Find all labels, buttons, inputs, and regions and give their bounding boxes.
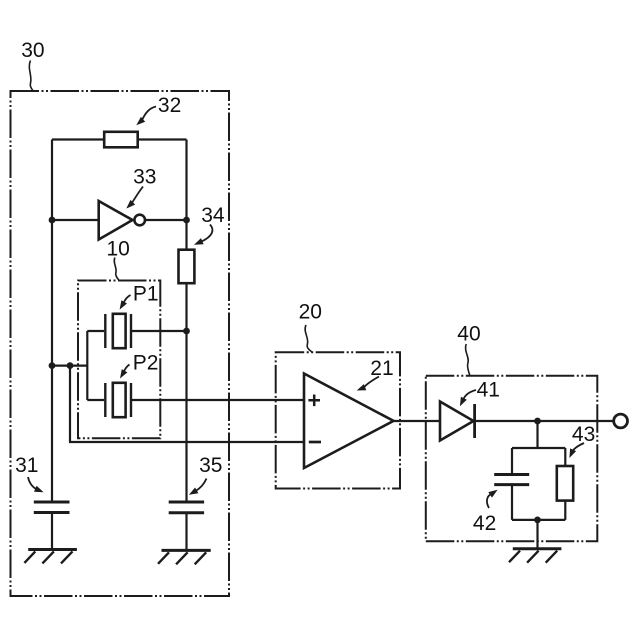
svg-text:P2: P2	[133, 352, 159, 375]
svg-text:21: 21	[370, 357, 393, 380]
svg-text:42: 42	[473, 512, 496, 535]
svg-text:P1: P1	[133, 283, 159, 306]
svg-text:30: 30	[21, 39, 44, 62]
svg-text:41: 41	[477, 378, 500, 401]
svg-text:43: 43	[572, 423, 595, 446]
svg-text:32: 32	[158, 94, 181, 117]
svg-text:33: 33	[133, 166, 156, 189]
svg-text:35: 35	[199, 454, 222, 477]
svg-text:34: 34	[201, 204, 225, 227]
svg-text:20: 20	[299, 300, 322, 323]
svg-text:10: 10	[107, 238, 130, 261]
svg-text:31: 31	[15, 454, 38, 477]
svg-text:40: 40	[457, 323, 480, 346]
